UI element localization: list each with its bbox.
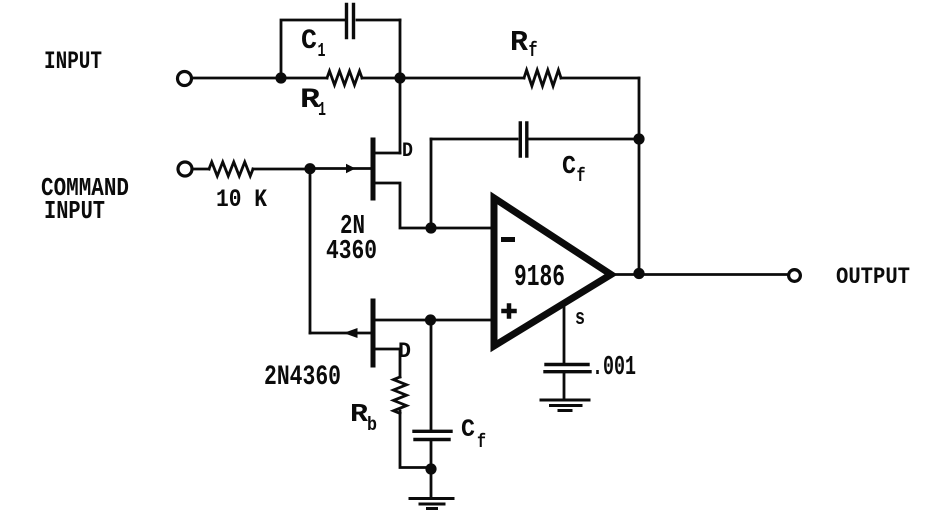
wire 10K to gate node (253, 168, 310, 171)
svg-text:INPUT: INPUT (44, 47, 102, 76)
wire Rf to feedback corner (561, 77, 639, 80)
svg-text:D: D (402, 140, 413, 163)
wire s pin (563, 303, 566, 362)
wire Rb bottom lead (400, 411, 431, 468)
svg-text:1: 1 (318, 40, 326, 62)
svg-text:10 K: 10 K (216, 185, 267, 214)
Q1 gate arrow (346, 164, 356, 174)
svg-text:s: s (575, 306, 585, 331)
node output junction (633, 268, 644, 279)
svg-text:C: C (461, 415, 475, 444)
ground under .001 (541, 400, 589, 411)
svg-text:1: 1 (318, 99, 326, 121)
wire Q1 source lead (375, 183, 431, 228)
resistor Rf (524, 70, 561, 86)
svg-text:f: f (577, 165, 586, 187)
wire node to Rf (400, 77, 524, 80)
svg-text:INPUT: INPUT (44, 196, 105, 226)
wire Cf right lead (529, 138, 639, 141)
wire input rail (193, 77, 328, 80)
op-amp minus sign (504, 237, 513, 242)
wire R1 to node (362, 77, 400, 80)
capacitor .001 (545, 365, 590, 372)
wire down from C1 corner to drain (399, 20, 402, 153)
resistor Rb (394, 377, 407, 413)
svg-text:f: f (477, 431, 486, 453)
ground bottom (410, 499, 453, 509)
command terminal (178, 162, 192, 176)
wire gate bus vertical (309, 169, 312, 333)
node ground junction (425, 463, 436, 474)
op-amp U1 (494, 198, 611, 346)
svg-text:2N4360: 2N4360 (264, 362, 341, 393)
wire command lead (193, 168, 209, 171)
op-amp plus sign (504, 306, 515, 317)
transistor Q1 channel bar (371, 140, 376, 198)
wire up to C1 branch (281, 20, 344, 78)
capacitor Cf bottom (414, 431, 451, 439)
svg-text:4360: 4360 (326, 237, 377, 267)
node inverting input junction (425, 222, 436, 233)
wire Cf left lead (431, 138, 517, 141)
node Cf/feedback junction (633, 133, 644, 144)
capacitor C1 (347, 5, 354, 38)
node gate junction (304, 163, 315, 174)
svg-text:b: b (367, 414, 377, 436)
wire Q2 gate lead (310, 332, 371, 335)
wire to op-amp minus input (431, 227, 492, 230)
capacitor Cf top (520, 123, 527, 156)
svg-text:OUTPUT: OUTPUT (836, 264, 910, 290)
svg-text:.001: .001 (592, 353, 636, 383)
wire Q1 gate lead (312, 167, 371, 170)
Q2 gate arrow (344, 328, 358, 338)
svg-text:9186: 9186 (514, 260, 565, 295)
output terminal (789, 270, 801, 282)
wire Q2 drain lead (375, 349, 400, 377)
wire Cf2 bottom lead (430, 441, 433, 497)
svg-text:R: R (350, 399, 368, 429)
svg-text:C: C (301, 26, 317, 57)
svg-text:D: D (398, 339, 411, 364)
wire Q1 drain lead (375, 152, 400, 155)
resistor R1 (327, 71, 362, 85)
resistor 10K (209, 162, 253, 176)
wire cap to ground (563, 373, 566, 399)
svg-text:C: C (562, 151, 576, 181)
transistor Q2 channel bar (371, 301, 376, 365)
wire Q2 source lead to plus input (375, 319, 492, 322)
wire Cf2 top lead (430, 320, 433, 430)
input terminal (178, 72, 192, 86)
node noninverting junction (425, 314, 436, 325)
wire Cf down to inverting node (430, 139, 433, 228)
wire C1 right to corner (357, 19, 400, 22)
wire output (611, 273, 788, 276)
wire feedback vertical (638, 78, 641, 275)
svg-text:R: R (510, 26, 529, 59)
node R1/Rf junction (394, 72, 405, 83)
svg-text:f: f (529, 40, 538, 63)
node input junction (275, 72, 286, 83)
